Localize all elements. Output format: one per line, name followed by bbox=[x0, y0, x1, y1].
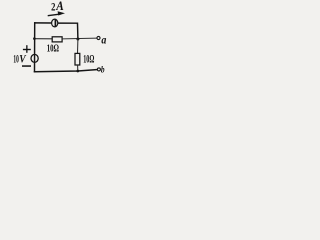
label 10V bbox=[13, 51, 26, 65]
node dot: left middle junction bbox=[33, 37, 36, 40]
svg-text:10: 10 bbox=[13, 51, 18, 65]
wire: bottom wire (slight scan slope) bbox=[35, 70, 98, 72]
label - polarity bbox=[22, 65, 31, 67]
current source I1 2A (circle with perpendicular bar) bbox=[52, 19, 58, 27]
wire: middle branch right segment to terminal a bbox=[63, 37, 97, 40]
terminal a (open circle) bbox=[97, 36, 100, 39]
svg-text:a: a bbox=[101, 33, 106, 47]
resistor R1 10 ohm (horizontal box) bbox=[52, 37, 62, 42]
current direction arrow for 2A bbox=[48, 11, 65, 16]
wire: middle branch left segment bbox=[34, 38, 51, 40]
label 10 ohm for R2 bbox=[83, 51, 94, 65]
wire: top branch left segment bbox=[35, 22, 51, 24]
voltage source V1 10V (circle on left wire) bbox=[31, 54, 38, 62]
label 2A bbox=[51, 0, 64, 13]
wire: left vertical branch (through voltage source) bbox=[34, 23, 36, 72]
svg-text:2: 2 bbox=[51, 1, 55, 13]
terminal b (open circle) bbox=[97, 68, 100, 71]
node dot: bottom right junction bbox=[76, 70, 79, 73]
svg-text:b: b bbox=[101, 65, 105, 76]
paper background bbox=[0, 0, 116, 84]
wire: right vertical branch lower stub bbox=[77, 66, 79, 71]
svg-text:V: V bbox=[19, 51, 26, 65]
wire: right vertical branch upper segment bbox=[77, 39, 79, 53]
svg-text:A: A bbox=[55, 0, 63, 13]
resistor R2 10 ohm (vertical box) bbox=[75, 53, 80, 65]
label 10 ohm for R1 bbox=[47, 43, 60, 55]
node dot: right middle junction bbox=[76, 38, 79, 41]
svg-text:10Ω: 10Ω bbox=[83, 51, 94, 65]
label + polarity bbox=[23, 45, 31, 53]
svg-text:10Ω: 10Ω bbox=[47, 43, 60, 55]
wire: top branch right segment and corner drop to middle node bbox=[58, 23, 78, 39]
